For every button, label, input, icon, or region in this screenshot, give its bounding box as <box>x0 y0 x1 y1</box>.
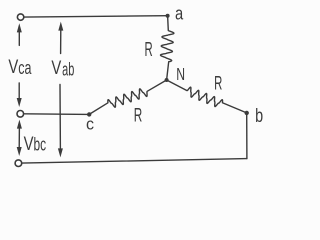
terminal circle c-phase (middle left) <box>17 111 24 118</box>
terminal circle b-phase (bottom left) <box>15 160 22 167</box>
wire: right vertical from corner up to node b <box>246 113 248 159</box>
voltage arrow Vab upper shaft <box>60 28 62 54</box>
svg-text:ca: ca <box>18 58 32 78</box>
svg-text:b: b <box>255 105 263 127</box>
label Vbc <box>24 133 46 155</box>
voltage arrow Vca lower shaft <box>18 83 20 100</box>
svg-text:N: N <box>176 64 185 84</box>
wire: top line from terminal a-phase to node a <box>24 16 168 17</box>
label Vca <box>8 56 32 78</box>
arrowhead Vbc down <box>17 147 22 156</box>
svg-text:c: c <box>86 115 94 134</box>
voltage arrow Vca upper shaft <box>18 30 20 45</box>
node b <box>245 111 249 115</box>
svg-text:a: a <box>175 3 184 24</box>
svg-text:ab: ab <box>62 60 74 80</box>
arrowhead Vab down <box>58 148 63 157</box>
svg-text:V: V <box>8 56 18 78</box>
svg-text:R: R <box>145 39 153 61</box>
arrowhead Vbc up <box>17 120 22 129</box>
resistor R1 (between node a and node N) <box>161 16 174 80</box>
svg-text:bc: bc <box>34 135 47 155</box>
resistor R3 (between node N and node b) <box>167 80 247 113</box>
wire: middle line from terminal c-phase to node c <box>24 113 90 116</box>
resistor R2 (between node N and node c) <box>89 80 166 114</box>
terminal circle a-phase (top left) <box>17 14 23 20</box>
svg-text:R: R <box>214 73 222 95</box>
arrowhead Vca up <box>17 23 22 32</box>
node N <box>165 78 169 82</box>
voltage arrow Vab lower shaft <box>59 85 61 151</box>
voltage arrow Vbc shaft <box>18 126 20 149</box>
node c <box>87 112 91 116</box>
svg-text:V: V <box>51 57 61 79</box>
arrowhead Vca down <box>17 98 22 107</box>
wire: bottom line from terminal b-phase to corner <box>22 159 247 164</box>
arrowhead Vab up <box>58 22 63 31</box>
svg-text:R: R <box>134 105 143 127</box>
label Vab <box>51 57 74 79</box>
svg-text:V: V <box>24 133 34 155</box>
node a <box>166 14 170 18</box>
